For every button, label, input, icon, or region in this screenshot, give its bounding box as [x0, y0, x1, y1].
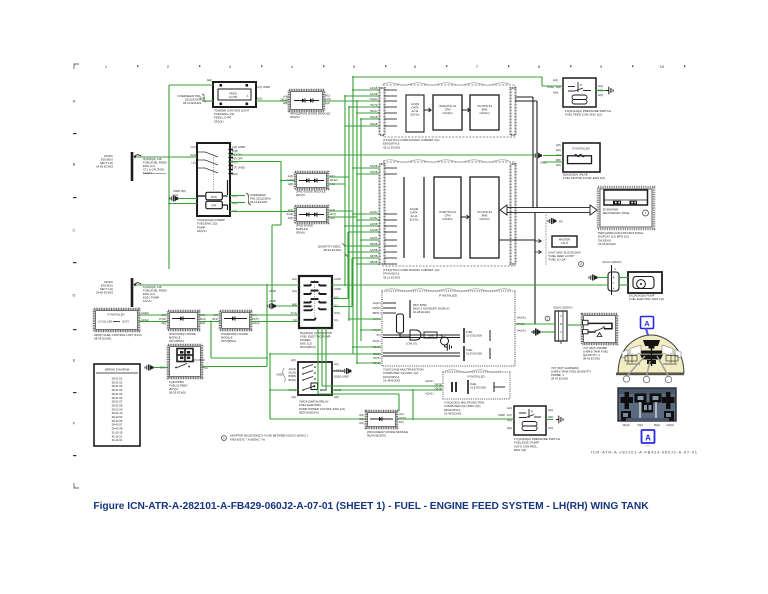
svg-text:SECONDARY PAGE: SECONDARY PAGE: [603, 211, 630, 215]
svg-text:CAC7(2): CAC7(2): [479, 217, 489, 221]
svg-text:A(A): A(A): [292, 278, 297, 281]
svg-text:TF1E(TF2)-H1: TF1E(TF2)-H1: [439, 210, 456, 214]
svg-text:42-11 ECH01: 42-11 ECH01: [383, 275, 401, 279]
svg-text:2R(V)U: 2R(V)U: [214, 119, 224, 123]
svg-text:28-21-52: 28-21-52: [112, 380, 123, 384]
wire stubs to cabinet 2(1) pins: [344, 89, 380, 126]
data bus arrow to MFD and BVM: [500, 205, 597, 215]
multifunction computer 7UA7(1UA2) MFC 1(2) IF INSTALLED: [372, 289, 526, 383]
wire switch F(F) OFF down to connector 5QA: [230, 162, 299, 307]
svg-text:1T(31): 1T(31): [159, 318, 166, 321]
svg-text:28-42 ECH01: 28-42 ECH01: [94, 337, 112, 341]
svg-text:7R(7S (: 7R(7S (: [373, 357, 381, 360]
wire connector 5QA bottom drops: [318, 328, 326, 394]
pressure switch 1XQA(14QA) FUEL FEED LOW: [547, 78, 611, 117]
wire stubs to MFC pins: [348, 318, 381, 364]
svg-text:2K(7): 2K(7): [330, 213, 336, 216]
avionics cabinet TF2 CORE AVIONIC CABINET 1(2): [369, 160, 515, 280]
svg-text:31-53 ECH28: 31-53 ECH28: [466, 333, 482, 337]
svg-text:2R(V)U: 2R(V)U: [296, 231, 305, 235]
svg-text:A(A): A(A): [291, 396, 296, 399]
svg-text:A1A(4): A1A(4): [252, 322, 260, 325]
svg-text:A(N): A(N): [548, 427, 553, 430]
svg-text:31-53 ECH28: 31-53 ECH28: [470, 385, 486, 389]
svg-text:AA(AA.): AA(AA.): [517, 317, 526, 320]
svg-text:ECH1x: ECH1x: [411, 113, 420, 117]
wire ground to probe connector B: [541, 331, 555, 333]
svg-text:BVM: BVM: [482, 107, 488, 111]
wire 1YQA to ground: [546, 419, 553, 421]
svg-text:D: D: [73, 293, 76, 298]
svg-text:A(N): A(N): [556, 149, 561, 152]
diode module W1A7(K93Q7): [159, 311, 206, 343]
svg-text:3(W): 3(W): [200, 322, 205, 325]
svg-text:A(N): A(N): [359, 414, 364, 417]
svg-text:P: P: [580, 83, 582, 87]
label ICN reference: [591, 450, 698, 455]
svg-text:94VU(95VU): 94VU(95VU): [169, 339, 184, 343]
svg-text:"FUEL LO QA": "FUEL LO QA": [548, 258, 566, 262]
svg-text:A(A) UNSD: A(A) UNSD: [232, 145, 245, 149]
display 5WK1(2WK2) MULTIFUNCTIONAL DISPLAY: [598, 187, 654, 246]
svg-text:2R(V)U: 2R(V)U: [290, 115, 300, 119]
wire pressure switch to ground: [596, 90, 606, 92]
svg-text:Figure ICN-ATR-A-282101-A-FB42: Figure ICN-ATR-A-282101-A-FB429-060J2-A-…: [93, 501, 649, 512]
svg-text:A(B): A(B): [288, 183, 293, 186]
connector 621VC(620VC) pump feed: [603, 260, 622, 295]
svg-text:A(N): A(N): [507, 427, 512, 430]
svg-text:AC(AC (: AC(AC (: [425, 380, 434, 383]
annunciator MASTER CAUT: [552, 236, 577, 247]
diode module 2RVD(4RVD) upper: [287, 172, 338, 197]
svg-text:FUEL ELECTRIC, ENG 1(2): FUEL ELECTRIC, ENG 1(2): [629, 297, 664, 301]
harness 7QT(8QT) label: [551, 366, 591, 381]
probe 7QT(8QT) LH(RH) TANK FUEL QUANTITY: [582, 314, 617, 361]
svg-text:28-21-01: 28-21-01: [112, 377, 123, 381]
svg-text:31-48 ECH13: 31-48 ECH13: [413, 310, 430, 314]
wire stubs to cabinet 1(2) pins: [344, 167, 380, 265]
svg-text:AF(AF (: AF(AF (: [373, 340, 382, 343]
svg-text:28-21-54: 28-21-54: [112, 388, 123, 392]
svg-text:C: C: [73, 228, 76, 233]
svg-text:42-11 ECH01: 42-11 ECH01: [383, 145, 401, 149]
diode module 2RVD lower: [287, 206, 337, 235]
power bus 24VDC ESS BUS SECT 1(2) bottom: [96, 278, 141, 307]
wire 1QE input/output: [154, 284, 268, 367]
wire switch F(F) ON to valve: [230, 154, 563, 157]
wire MFC AC/AC to relay area: [269, 353, 381, 419]
audio warning at pump line: [589, 274, 597, 280]
svg-text:WIRING DIAGRAM: WIRING DIAGRAM: [105, 368, 130, 372]
vertical wire bus x361: [360, 119, 362, 341]
wire bottom run through diode W2VU to 1YQA switch: [270, 389, 514, 420]
svg-text:121VU: 121VU: [143, 299, 152, 303]
svg-text:B3(B3): B3(B3): [289, 375, 297, 378]
svg-text:UNSD: UNSD: [276, 374, 283, 377]
svg-text:CAC3(2): CAC3(2): [442, 217, 452, 221]
callout A reference bottom: [642, 430, 655, 448]
svg-text:W1A7(K93Q7) DIODE: W1A7(K93Q7) DIODE: [169, 332, 196, 336]
node QUANTITY INDIC: [318, 244, 348, 257]
vertical wire bus x353: [352, 77, 354, 354]
svg-text:601VC (600VC): 601VC (600VC): [554, 306, 573, 310]
power bus 24VDC ESS BUS SECT 1(2) top: [96, 152, 141, 181]
multifunction computer 7JA2/2JK2 MFC 2(1) IF INSTALLED: [425, 370, 510, 416]
svg-text:CPM: CPM: [445, 107, 451, 111]
pressure switch 1YQA(34QA) AUTO CONTROL: [498, 406, 560, 452]
connector 601VC(600VC) probe: [554, 306, 573, 345]
svg-text:12QA: 12QA: [666, 423, 674, 427]
wire bus1 to switch G(G): [136, 156, 197, 158]
svg-text:G(G): G(G): [190, 153, 196, 157]
wire diode W2VU corner: [318, 394, 399, 411]
svg-text:LOW LVL: LOW LVL: [406, 342, 418, 346]
svg-text:A(D): A(D): [257, 97, 262, 101]
svg-text:X(X1): X(X1): [334, 312, 341, 315]
svg-text:42-11-64: 42-11-64: [112, 438, 123, 442]
wire to MASTER CAUT: [499, 212, 546, 324]
svg-text:31-48 ECH01: 31-48 ECH01: [383, 379, 401, 383]
svg-text:UNSD: UNSD: [334, 288, 341, 291]
svg-text:28-21-53: 28-21-53: [112, 384, 123, 388]
svg-text:A2(A2): A2(A2): [289, 368, 297, 371]
svg-text:A(A): A(A): [507, 407, 512, 410]
pump 1KQA(2KQA) FUEL ELECTRIC: [628, 272, 664, 301]
svg-text:A(U): A(U): [325, 95, 330, 98]
svg-text:11QA: 11QA: [622, 423, 629, 427]
svg-text:TF2(TF1) E1: TF2(TF1) E1: [477, 104, 492, 108]
svg-text:A(U): A(U): [334, 363, 339, 366]
svg-text:121VU: 121VU: [143, 171, 152, 175]
wire top feed to pressure switch 1XQA: [352, 76, 563, 86]
ground at pressure switch output: [606, 87, 613, 95]
svg-text:CPM: CPM: [445, 213, 451, 217]
svg-text:A(P): A(P): [556, 144, 561, 147]
callout A reference top: [641, 317, 654, 342]
svg-text:A(N): A(N): [359, 422, 364, 425]
node OVERHEAD PNL 222(223)VU: [177, 94, 206, 105]
svg-text:A1(M): A1(M): [334, 278, 341, 281]
svg-text:AA(AA.): AA(AA.): [517, 330, 526, 333]
wire rows to MFC2 box: [322, 386, 443, 390]
wire FCU to diode modules chain: [139, 315, 299, 322]
svg-text:28-42-55: 28-42-55: [112, 419, 123, 423]
svg-text:TF1(TF2) E1: TF1(TF2) E1: [477, 210, 492, 214]
svg-text:B: B: [73, 162, 76, 167]
svg-text:8QA: 8QA: [654, 423, 660, 427]
svg-text:C(C): C(C): [507, 414, 512, 417]
svg-text:24-65 ECH01: 24-65 ECH01: [96, 165, 113, 169]
svg-text:OFF: OFF: [211, 204, 217, 208]
svg-text:RUN: RUN: [211, 195, 217, 199]
svg-text:A(A): A(A): [325, 102, 330, 105]
svg-text:LO LVL L(R): LO LVL L(R): [98, 320, 112, 324]
svg-text:28-42 ECH02: 28-42 ECH02: [583, 357, 600, 361]
svg-text:6G(6D (: 6G(6D (: [372, 307, 381, 310]
svg-text:31-63 ECH03: 31-63 ECH03: [598, 242, 616, 246]
svg-text:10: 10: [660, 64, 665, 69]
svg-text:42-11-51: 42-11-51: [112, 434, 123, 438]
wire bus2 pump power long run: [136, 284, 608, 286]
svg-text:A: A: [247, 94, 249, 98]
svg-text:UNSD H(H): UNSD H(H): [173, 190, 186, 193]
svg-text:A: A: [73, 99, 76, 104]
svg-text:A: A: [645, 434, 651, 443]
wire MFC AA output to probe connector: [515, 324, 581, 325]
diode module 4RVD(2RVD): [280, 90, 331, 119]
svg-text:BVM: BVM: [482, 213, 488, 217]
callout circled numbers under cockpit: [623, 376, 671, 383]
svg-text:28-21-58: 28-21-58: [112, 403, 123, 407]
svg-text:E: E: [73, 358, 76, 363]
svg-text:IF INSTALLED: IF INSTALLED: [439, 294, 457, 298]
svg-text:5B(5C (: 5B(5C (: [373, 312, 381, 315]
svg-text:28-21-56: 28-21-56: [112, 396, 123, 400]
svg-text:ICN-ATR-A-282101-A-FB429-060J2: ICN-ATR-A-282101-A-FB429-060J2-A-07-01: [591, 450, 698, 455]
caption figure title: [93, 501, 649, 512]
svg-text:A(E): A(E): [207, 78, 212, 82]
audio warning RC: [548, 218, 563, 224]
svg-text:28-21-10: 28-21-10: [112, 411, 123, 415]
svg-text:A(T) UNSD: A(T) UNSD: [257, 85, 270, 89]
diode module W2VU(91EQ7): [359, 411, 408, 438]
wire black pair cabinet2(1) to arrow junction: [515, 97, 537, 208]
ground with audio at probe bus: [532, 329, 540, 335]
svg-text:(TF2E(TF1)-H1: (TF2E(TF1)-H1: [439, 104, 457, 108]
svg-text:ENG 1(2): ENG 1(2): [514, 448, 526, 452]
diode module W1A9(K93Q7): [212, 311, 260, 343]
svg-text:621VC (620VC): 621VC (620VC): [603, 260, 622, 264]
legend WIRING DIAGRAM list: [94, 364, 140, 446]
svg-text:B(D): B(D): [200, 97, 205, 101]
svg-text:4S(T7): 4S(T7): [252, 318, 260, 321]
node OVERHEAD PNL at switch P/R pins: [246, 193, 271, 205]
wire junction down to 1QE: [210, 321, 267, 358]
audio warning at switch G(G)/H(H): [168, 190, 197, 204]
svg-text:33-14 ECH03: 33-14 ECH03: [183, 101, 202, 105]
svg-text:IF INSTALLED: IF INSTALLED: [468, 375, 485, 379]
svg-text:K(K): K(K): [399, 421, 404, 424]
ground at probe connector: [533, 328, 540, 336]
svg-text:CAC4(1): CAC4(1): [479, 111, 489, 115]
audio warning at relay 7WGA: [332, 368, 351, 374]
svg-text:A(F) UNSD: A(F) UNSD: [192, 359, 205, 362]
ground at pressure switch 1YQA: [556, 416, 563, 424]
vertical wire bus x357: [356, 101, 358, 363]
vertical wire bus x345: [344, 96, 346, 286]
svg-text:94VU(95VU): 94VU(95VU): [221, 339, 236, 343]
wire quantity indic to cabinet: [345, 245, 380, 247]
svg-text:B1(B1): B1(B1): [289, 379, 297, 382]
svg-text:5H (: 5H (: [376, 334, 381, 337]
svg-text:A4(A4 (: A4(A4 (: [373, 302, 381, 305]
svg-text:28-42-57: 28-42-57: [112, 423, 123, 427]
svg-text:unna: unna: [646, 446, 652, 448]
svg-text:ECH1x: ECH1x: [410, 218, 419, 222]
svg-text:F(F) OFF: F(F) OFF: [232, 156, 243, 160]
wire switch P(P)/R(R) to overhead: [230, 196, 245, 203]
svg-text:AC(AC (: AC(AC (: [425, 393, 434, 396]
svg-text:96ZVU(910VU): 96ZVU(910VU): [299, 411, 319, 415]
svg-text:C(C): C(C): [232, 160, 238, 164]
svg-text:MODULE: MODULE: [169, 335, 181, 339]
svg-text:28-42 ECH01: 28-42 ECH01: [323, 248, 341, 252]
wire switch E(E) to diode module lower: [230, 211, 295, 213]
note CAUT MSG 31-63 ECH04: [548, 251, 583, 267]
svg-text:24-65 ECH01: 24-65 ECH01: [96, 291, 113, 295]
wire overhead panel to caution light A(E): [169, 85, 213, 269]
note adapter fuse: [222, 434, 308, 442]
svg-text:28-21-59: 28-21-59: [112, 407, 123, 411]
frame tick marks and zone labels: [73, 64, 686, 488]
note circled 2 at MFC output: [545, 316, 550, 321]
svg-text:RC: RC: [559, 220, 563, 224]
svg-text:A(A): A(A): [553, 79, 558, 82]
svg-text:W1A9(K93Q7) DIODE: W1A9(K93Q7) DIODE: [221, 332, 248, 336]
svg-text:96ZVU(910VU): 96ZVU(910VU): [367, 434, 386, 438]
svg-text:31-48 ECH01: 31-48 ECH01: [444, 412, 462, 416]
svg-text:LO PR: LO PR: [229, 95, 237, 99]
wire caution light to diode module to cabinet: [202, 100, 380, 102]
svg-text:3K(3): 3K(3): [200, 318, 206, 321]
svg-text:31-53 ECH28: 31-53 ECH28: [466, 351, 482, 355]
circuit breaker 1QA(2QA) C/B ELEC PUMP: [143, 285, 167, 303]
svg-text:IF INSTALLED: IF INSTALLED: [108, 313, 125, 317]
svg-text:28-42-53: 28-42-53: [112, 415, 123, 419]
valve 8QA(10QA) FUEL MOTIVE FLOW: [556, 143, 605, 180]
svg-text:28-21-55: 28-21-55: [112, 392, 123, 396]
svg-text:28-25 ECH01: 28-25 ECH01: [169, 391, 186, 395]
svg-text:C(C): C(C): [191, 145, 197, 149]
svg-text:FUEL FEED LOW, ENG 1(2): FUEL FEED LOW, ENG 1(2): [565, 113, 602, 117]
svg-text:A: A: [644, 319, 650, 328]
svg-text:P: P: [531, 410, 533, 414]
avionics cabinet TF1 CORE AVIONIC CABINET 2(1): [370, 83, 516, 150]
breaker panel 1QE PWBG FUEL/Q FEED: [160, 345, 208, 395]
svg-text:33-14 ECH03: 33-14 ECH03: [250, 200, 267, 204]
svg-text:OUT2: OUT2: [122, 320, 129, 324]
svg-text:A(A): A(A): [288, 175, 293, 178]
svg-text:L(L): L(L): [191, 161, 196, 165]
wire connector 5QA right feeds: [332, 232, 352, 307]
wire relay 7WGA X1/X2 row: [269, 389, 335, 391]
fuel control unit 266QT FCU: [94, 309, 149, 341]
circuit breaker 3QK(6QA) C/B FUEL FEED CTL: [143, 157, 167, 175]
svg-text:N(N): N(N): [232, 172, 238, 176]
svg-text:A(M): A(M): [288, 217, 294, 220]
svg-text:R(R): R(R): [548, 416, 553, 419]
svg-text:A(U): A(U): [399, 413, 404, 416]
svg-text:A(K): A(K): [291, 359, 296, 362]
svg-text:2K(22): 2K(22): [330, 179, 338, 182]
svg-text:K(T) UNSD: K(T) UNSD: [232, 166, 245, 170]
svg-text:UNSD: UNSD: [498, 414, 505, 417]
svg-text:A(N): A(N): [334, 396, 339, 399]
svg-text:28-42 ECH02: 28-42 ECH02: [551, 377, 568, 381]
svg-text:C: C: [613, 282, 615, 285]
wire connector 5QA row to pump connector: [597, 277, 608, 279]
wire diode module lower outputs: [328, 211, 357, 217]
svg-text:2R(V)U: 2R(V)U: [296, 193, 305, 197]
svg-text:MODULE: MODULE: [221, 335, 233, 339]
svg-text:IF INSTALLED: IF INSTALLED: [573, 147, 590, 151]
svg-text:A(N): A(N): [548, 409, 553, 412]
relay 7WGA(5WGA) FUEL ELECTRIC PUMP POWER CUTOFF: [276, 359, 349, 415]
svg-text:28-42-58: 28-42-58: [112, 427, 123, 431]
svg-text:J(L): J(L): [334, 319, 338, 322]
svg-text:CAUT: CAUT: [561, 241, 569, 245]
svg-text:2R(V)U: 2R(V)U: [197, 229, 207, 233]
svg-text:A(N): A(N): [598, 94, 603, 97]
svg-text:MASTER: MASTER: [559, 238, 570, 242]
svg-text:A(N): A(N): [553, 92, 558, 95]
caution light 70A(80A) FEED LO PR: [200, 78, 271, 123]
svg-text:A1(A1): A1(A1): [289, 372, 297, 375]
svg-text:3(G): 3(G): [292, 290, 297, 293]
wire diode module upper feeds: [280, 107, 349, 321]
svg-text:31-53-19: 31-53-19: [112, 430, 123, 434]
svg-text:A(K): A(K): [161, 322, 166, 325]
audio warning at valve line: [534, 152, 548, 164]
svg-text:A(B): A(B): [283, 102, 288, 105]
svg-text:7QA: 7QA: [637, 423, 643, 427]
audio warning at connector 5QA: [268, 303, 276, 309]
svg-text:CAC2(1): CAC2(1): [442, 111, 452, 115]
wire valve UNSD row: [543, 161, 563, 163]
wire pump connector to pump: [618, 278, 628, 286]
svg-text:AND 601VC * A (600VC * A): AND 601VC * A (600VC * A): [230, 438, 265, 442]
audio warning at 1QE: [145, 364, 153, 370]
switch unit 1XQA(1GQA) FWBW FUEL PUMP: [190, 143, 245, 233]
svg-text:FUEL MOTIVE FLOW, ENG 1(2): FUEL MOTIVE FLOW, ENG 1(2): [563, 176, 605, 180]
svg-text:B2(B2) UNSD: B2(B2) UNSD: [334, 376, 349, 379]
svg-text:A(K): A(K): [556, 164, 561, 167]
illustration cockpit cross-section: [616, 335, 684, 376]
svg-text:28-21-57: 28-21-57: [112, 400, 123, 404]
svg-text:94VU(95VU): 94VU(95VU): [300, 345, 316, 349]
svg-text:3G(3): 3G(3): [287, 213, 294, 216]
connector 5QA(6QA) FUEL ELECTRIC PUMP POWER: [269, 276, 341, 349]
svg-text:B (B): B (B): [232, 149, 238, 153]
svg-text:3K(3): 3K(3): [212, 318, 218, 321]
svg-text:A(A): A(A): [598, 85, 603, 88]
illustration breaker panel 11QA 7QA 8QA 12QA: [618, 388, 676, 427]
